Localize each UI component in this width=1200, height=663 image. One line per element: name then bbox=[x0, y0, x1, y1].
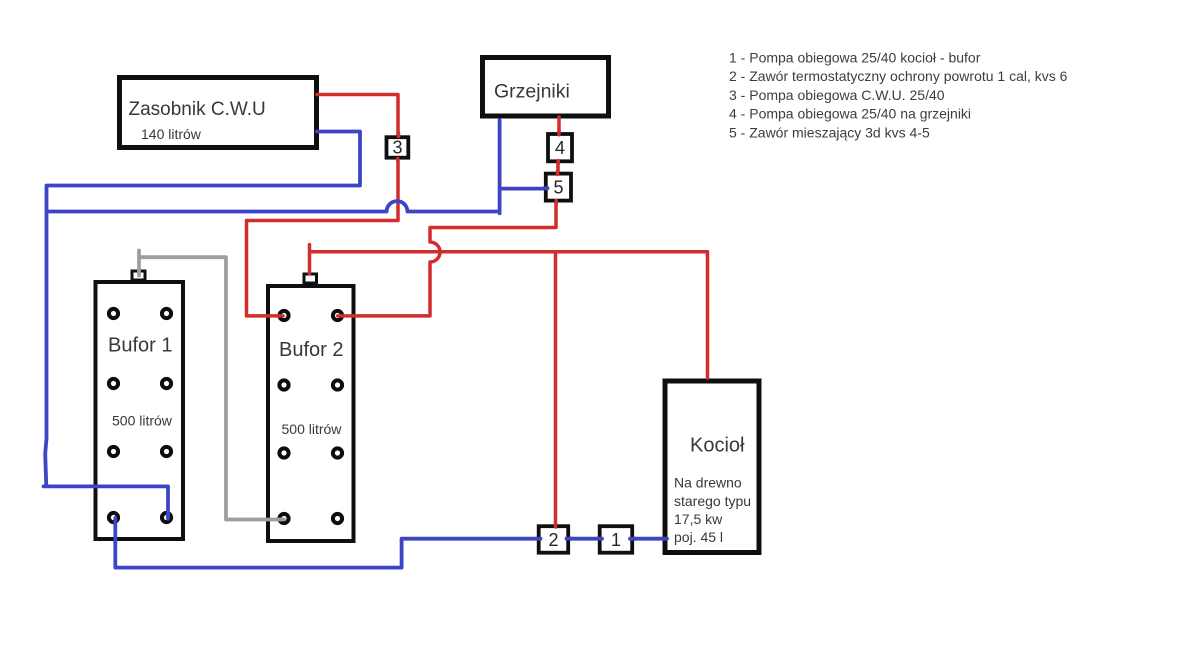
label 500 litrow (Bufor 1) bbox=[112, 413, 173, 429]
legend line 2 bbox=[729, 68, 1068, 84]
nipple on top of Bufor 1 bbox=[132, 271, 145, 280]
svg-text:3: 3 bbox=[392, 138, 402, 158]
svg-text:starego typu: starego typu bbox=[674, 493, 751, 509]
buffer tank Bufor 1 box bbox=[96, 282, 184, 539]
legend line 1 bbox=[729, 50, 981, 66]
valve box 5 bbox=[546, 174, 571, 201]
blue drop from Grzejniki bbox=[498, 120, 502, 213]
boiler Kociol box bbox=[665, 381, 759, 553]
pump box 1 bbox=[600, 526, 633, 553]
svg-text:Na drewno: Na drewno bbox=[674, 475, 742, 491]
svg-text:4: 4 bbox=[555, 138, 565, 158]
wire overlap stubs on numbered box borders bbox=[398, 132, 636, 539]
svg-text:4 - Pompa obiegowa 25/40 na gr: 4 - Pompa obiegowa 25/40 na grzejniki bbox=[729, 106, 971, 122]
pump box 3 bbox=[387, 137, 409, 158]
legend line 5 bbox=[729, 124, 930, 140]
label Kociol bbox=[690, 435, 745, 457]
red stub Grzejniki to pump 4 bbox=[557, 117, 561, 133]
red wire Zasobnik to pump 3 to Bufor2 top-left port bbox=[247, 95, 399, 316]
blue wire Zasobnik to Bufor1 bottom-right port bbox=[44, 132, 361, 519]
label Zasobnik C.W.U bbox=[129, 99, 266, 120]
svg-text:500 litrów: 500 litrów bbox=[282, 421, 343, 437]
svg-text:17,5 kw: 17,5 kw bbox=[674, 511, 723, 527]
blue wire pump 1 to Kociol bbox=[632, 537, 667, 541]
svg-text:Zasobnik C.W.U: Zasobnik C.W.U bbox=[129, 99, 266, 120]
svg-text:Bufor 1: Bufor 1 bbox=[108, 335, 172, 357]
blue wire Bufor1 bottom-left port to valve 2 bbox=[115, 518, 540, 568]
red branch wire down to valve 2 bbox=[554, 252, 558, 525]
svg-text:5 - Zawór mieszający 3d kvs 4-: 5 - Zawór mieszający 3d kvs 4-5 bbox=[729, 124, 930, 140]
blue stub to valve 5 bbox=[500, 187, 546, 191]
label Na drewno bbox=[674, 475, 742, 491]
buffer tank Bufor 2 box bbox=[268, 286, 354, 541]
svg-text:5: 5 bbox=[553, 178, 563, 198]
label Bufor 2 bbox=[279, 339, 343, 361]
ports Bufor 2 (8 circles) bbox=[279, 311, 342, 523]
svg-text:1 - Pompa obiegowa 25/40 kocio: 1 - Pompa obiegowa 25/40 kocioł - bufor bbox=[729, 50, 981, 66]
svg-text:1: 1 bbox=[611, 530, 621, 550]
legend line 4 bbox=[729, 106, 971, 122]
svg-text:500 litrów: 500 litrów bbox=[112, 413, 173, 429]
svg-text:2: 2 bbox=[548, 530, 558, 550]
label 140 litrow bbox=[141, 126, 202, 142]
ports Bufor 1 (8 circles) bbox=[109, 309, 171, 522]
svg-text:Bufor 2: Bufor 2 bbox=[279, 339, 343, 361]
label poj. 45 l bbox=[674, 529, 723, 545]
valve box 2 bbox=[539, 526, 569, 553]
label Grzejniki bbox=[494, 81, 570, 103]
svg-text:2 - Zawór termostatyczny ochro: 2 - Zawór termostatyczny ochrony powrotu… bbox=[729, 68, 1068, 84]
red wire Bufor2 top-right port to valve 5 (with hop over red cross line) bbox=[338, 204, 556, 316]
red stub pump 4 to valve 5 bbox=[556, 162, 560, 173]
pump box 4 bbox=[548, 134, 572, 161]
svg-text:poj. 45 l: poj. 45 l bbox=[674, 529, 723, 545]
nipple on top of Bufor 2 bbox=[304, 274, 317, 283]
label Bufor 1 bbox=[108, 335, 172, 357]
legend line 3 bbox=[729, 87, 945, 103]
label 500 litrow (Bufor 2) bbox=[282, 421, 343, 437]
svg-text:Kocioł: Kocioł bbox=[690, 435, 745, 457]
svg-text:3 - Pompa obiegowa C.W.U. 25/4: 3 - Pompa obiegowa C.W.U. 25/40 bbox=[729, 87, 945, 103]
tank Zasobnik C.W.U box bbox=[120, 78, 317, 148]
blue wire valve 2 to pump 1 bbox=[569, 537, 600, 541]
red wire Bufor2 nipple to Kociol top bbox=[310, 245, 708, 378]
blue wire left riser to Grzejniki drop (with hop over red) bbox=[47, 201, 500, 211]
radiators Grzejniki box bbox=[483, 58, 609, 117]
svg-text:Grzejniki: Grzejniki bbox=[494, 81, 570, 103]
label starego typu bbox=[674, 493, 751, 509]
svg-text:140 litrów: 140 litrów bbox=[141, 126, 202, 142]
gray wire Bufor1 nipple to Bufor2 bottom-left port bbox=[139, 251, 284, 520]
label 17,5 kw bbox=[674, 511, 723, 527]
